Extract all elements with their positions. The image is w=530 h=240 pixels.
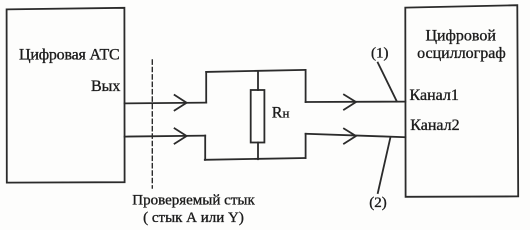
svg-text:Проверяемый стык: Проверяемый стык bbox=[132, 192, 255, 208]
dashed line: tested interface boundary bbox=[151, 60, 153, 188]
wire: АТС output 1 to load bbox=[125, 102, 207, 105]
wire: load loop bottom rail bbox=[205, 158, 306, 160]
wire: load to oscilloscope channel 2 bbox=[306, 134, 406, 137]
wire: load loop left vertical (bottom) bbox=[204, 136, 206, 160]
block U1: Цифровая АТС bbox=[7, 8, 125, 183]
svg-text:Вых: Вых bbox=[91, 78, 120, 95]
callout line (2) bbox=[378, 137, 391, 193]
wire: bottom lead from resistor to rail bbox=[257, 143, 259, 160]
svg-text:Цифровой: Цифровой bbox=[425, 28, 496, 45]
svg-text:( стык А или Y): ( стык А или Y) bbox=[143, 210, 244, 226]
svg-text:Канал1: Канал1 bbox=[410, 87, 459, 104]
svg-text:Цифровая АТС: Цифровая АТС bbox=[19, 46, 119, 63]
svg-text:Rн: Rн bbox=[272, 105, 290, 122]
svg-text:осциллограф: осциллограф bbox=[417, 45, 506, 62]
wire: АТС output 2 to load bbox=[125, 136, 206, 137]
wire: top lead from rail to resistor bbox=[257, 71, 259, 90]
resistor Rн body bbox=[251, 90, 265, 143]
arrow on output-2 wire bbox=[175, 128, 187, 143]
wire: load loop right vertical (top) bbox=[305, 70, 307, 102]
arrow on output-1 wire bbox=[175, 95, 187, 110]
wire: load loop left vertical (top) bbox=[205, 72, 207, 103]
callout line (1) bbox=[378, 63, 397, 102]
wire: load loop right vertical (bottom) bbox=[305, 134, 307, 158]
arrow on channel-1 wire bbox=[344, 95, 356, 110]
wire: load to oscilloscope channel 1 bbox=[306, 101, 406, 103]
arrow on channel-2 wire bbox=[344, 129, 356, 144]
svg-text:(2): (2) bbox=[369, 195, 387, 211]
block U2: Цифровой осциллограф bbox=[405, 5, 518, 197]
svg-text:Канал2: Канал2 bbox=[410, 117, 459, 134]
svg-text:(1): (1) bbox=[371, 46, 389, 62]
wire: load loop top rail bbox=[206, 70, 305, 72]
